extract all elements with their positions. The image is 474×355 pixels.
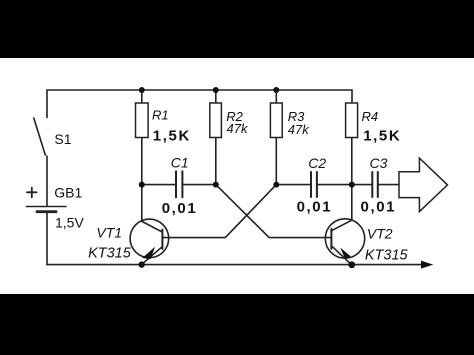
svg-text:R4: R4 (362, 109, 379, 124)
svg-text:C1: C1 (171, 155, 189, 171)
svg-text:1,5K: 1,5K (363, 128, 401, 145)
svg-text:KT315: KT315 (365, 248, 409, 264)
svg-text:GB1: GB1 (54, 185, 82, 201)
svg-text:0,01: 0,01 (297, 199, 333, 216)
svg-text:VT1: VT1 (96, 224, 122, 240)
svg-text:1,5K: 1,5K (153, 128, 191, 145)
svg-text:47k: 47k (227, 121, 249, 136)
svg-text:47k: 47k (288, 122, 310, 137)
svg-text:KT315: KT315 (88, 246, 132, 262)
svg-text:1,5V: 1,5V (55, 215, 84, 231)
svg-text:VT2: VT2 (367, 225, 393, 241)
svg-text:0,01: 0,01 (162, 200, 198, 217)
svg-text:C2: C2 (308, 155, 326, 171)
svg-text:0,01: 0,01 (361, 199, 397, 216)
svg-text:C3: C3 (370, 155, 388, 171)
svg-text:S1: S1 (54, 131, 71, 147)
svg-text:R1: R1 (152, 108, 169, 123)
